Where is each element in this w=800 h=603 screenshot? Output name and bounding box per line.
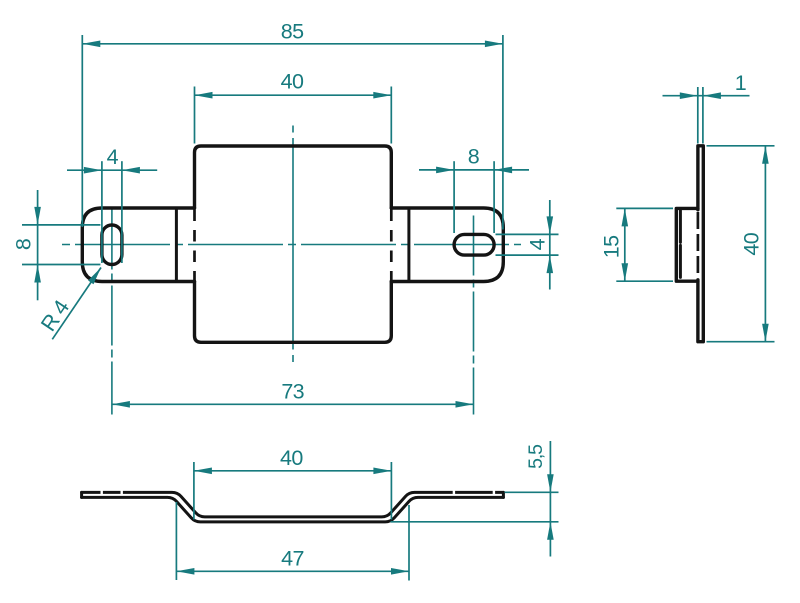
centerline vertical main [292, 126, 294, 363]
dimension 4 right slot height [496, 200, 559, 290]
dimension 40 top [195, 69, 392, 143]
svg-text:4: 4 [107, 145, 119, 169]
svg-text:8: 8 [468, 145, 480, 169]
side plate hidden edge (dash-dot) [697, 212, 700, 278]
right slot [454, 234, 494, 255]
svg-text:8: 8 [12, 238, 36, 250]
right bend line [407, 208, 410, 282]
radius leader R 4 [36, 268, 101, 340]
left slot [102, 225, 122, 265]
profile top surface [82, 492, 504, 517]
profile right end cap [502, 492, 505, 497]
dimension 8 right slot width [419, 145, 529, 233]
left bend line [175, 208, 178, 282]
centerline right slot vertical / 73 extension [473, 216, 475, 415]
dimension 1 thickness [663, 71, 750, 144]
svg-text:1: 1 [735, 71, 746, 95]
svg-text:5,5: 5,5 [525, 444, 547, 469]
side plate outline [698, 146, 703, 342]
svg-text:73: 73 [281, 379, 304, 403]
slot edge gaps on wing top line [101, 490, 496, 495]
profile bottom surface [82, 497, 504, 522]
dimension 15 flange height [600, 208, 674, 281]
dimension 85 [82, 20, 503, 230]
svg-text:85: 85 [281, 20, 304, 44]
right tab outline [391, 208, 503, 282]
dimension 40 side height [707, 146, 775, 342]
dimension 40 bottom [194, 446, 392, 520]
centerline left slot vertical / 73 extension [111, 210, 113, 415]
dimension 73 [112, 379, 474, 407]
svg-text:40: 40 [280, 446, 303, 470]
dimension 4 left slot width [67, 145, 157, 263]
centerline horizontal main [62, 244, 521, 246]
svg-text:40: 40 [281, 69, 304, 93]
side flange outline [676, 208, 698, 281]
svg-text:47: 47 [281, 546, 304, 570]
profile left end cap [80, 492, 83, 497]
svg-text:40: 40 [740, 232, 764, 255]
left tab outline [82, 208, 194, 282]
dimension 5,5 [391, 441, 559, 557]
central square plate outline [195, 146, 392, 342]
svg-text:R 4: R 4 [36, 296, 74, 336]
svg-text:15: 15 [600, 235, 624, 258]
svg-text:4: 4 [526, 238, 550, 250]
dimension 47 [176, 502, 409, 581]
dimension 8 left slot height [12, 190, 101, 300]
side flange inner thickness line [679, 210, 682, 279]
hidden square right edge (dashed) [390, 210, 393, 282]
hidden square left edge (dashed) [193, 210, 196, 282]
